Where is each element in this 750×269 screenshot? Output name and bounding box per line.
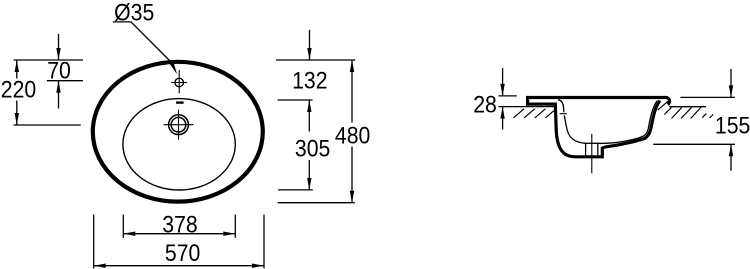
svg-text:70: 70 bbox=[47, 56, 71, 84]
dimension 378 bbox=[123, 232, 235, 236]
dimension 28 bbox=[500, 68, 504, 130]
extension line rim top right (155 dim) bbox=[680, 96, 735, 98]
dimension 132 bbox=[307, 30, 311, 60]
basin outer profile (section view) bbox=[528, 98, 670, 157]
svg-text:28: 28 bbox=[473, 90, 497, 118]
countertop hatching left bbox=[513, 109, 556, 118]
dimension 480 bbox=[350, 60, 354, 203]
svg-text:Ø35: Ø35 bbox=[114, 0, 154, 26]
extension line inner bowl width left bbox=[122, 215, 124, 238]
extension line drain axis (left) bbox=[14, 124, 81, 126]
svg-text:132: 132 bbox=[292, 66, 327, 94]
basin inner surface left (section view) bbox=[558, 100, 564, 113]
label Ø35 leader bbox=[113, 22, 177, 75]
basin inner surface lower-left (section view) bbox=[564, 115, 585, 143]
dimension 305 bbox=[307, 100, 311, 190]
extension line outer width right bbox=[263, 215, 265, 269]
extension line faucet axis (left) bbox=[47, 80, 83, 82]
dimension 70 bbox=[56, 34, 60, 109]
extension line basin underside (155 dim) bbox=[653, 143, 735, 145]
extension line top (outer rim front edge, right segment) bbox=[276, 59, 355, 61]
dimension 570 bbox=[94, 264, 264, 268]
svg-text:220: 220 bbox=[1, 75, 36, 103]
svg-text:378: 378 bbox=[162, 210, 197, 238]
basin inner surface right (section view) bbox=[598, 101, 658, 144]
svg-text:305: 305 bbox=[295, 134, 330, 162]
svg-text:155: 155 bbox=[715, 111, 750, 139]
extension line top (outer rim front edge, left segment) bbox=[14, 59, 83, 61]
dimension 220 bbox=[15, 60, 19, 125]
extension line rim top (28 dim) bbox=[498, 95, 516, 97]
countertop line left (section view) bbox=[498, 106, 554, 108]
extension line outer rim back edge (right) bbox=[278, 202, 355, 204]
extension line outer width left bbox=[93, 215, 95, 269]
overflow slot bbox=[176, 101, 184, 103]
drain centerline bbox=[591, 134, 593, 174]
basin outer rim (top view) bbox=[93, 62, 263, 202]
drain bbox=[164, 110, 194, 140]
overflow hole (section view) bbox=[560, 113, 567, 115]
extension line inner bowl bottom (right) bbox=[278, 189, 313, 191]
extension line inner bowl width right bbox=[234, 215, 236, 238]
svg-text:570: 570 bbox=[165, 239, 200, 267]
drain hole (section view) bbox=[586, 143, 598, 155]
countertop hatching right bbox=[658, 101, 713, 118]
countertop line right (section view) bbox=[669, 106, 706, 108]
dimension 155 bbox=[729, 69, 733, 171]
extension line inner bowl top (right) bbox=[278, 99, 313, 101]
faucet hole bbox=[171, 70, 187, 93]
svg-text:480: 480 bbox=[335, 121, 370, 149]
basin inner bowl (top view) bbox=[123, 99, 235, 190]
